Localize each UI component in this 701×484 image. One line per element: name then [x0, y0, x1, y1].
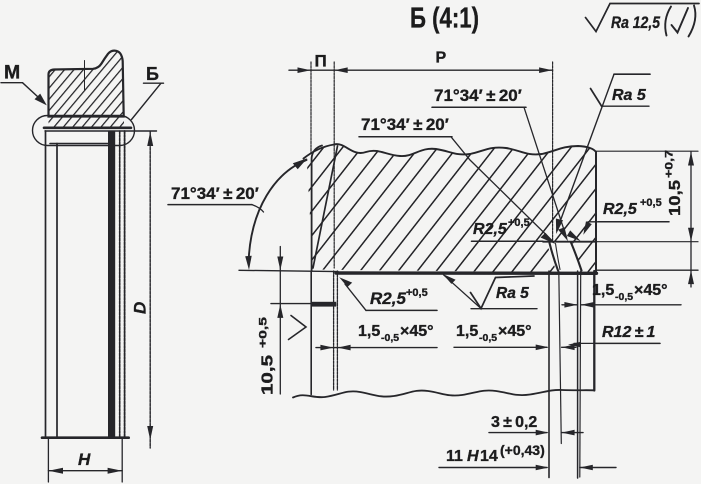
seal band top edge	[49, 116, 125, 118]
left rim black step bar	[312, 302, 337, 307]
svg-text:D: D	[131, 302, 150, 314]
left vertical edge of detail	[312, 146, 322, 272]
extension line П left	[310, 62, 312, 153]
svg-text:3 ± 0,2: 3 ± 0,2	[491, 414, 537, 431]
svg-text:×45°: ×45°	[498, 323, 532, 340]
right rim outer wall	[593, 271, 595, 391]
svg-text:+0,5: +0,5	[258, 317, 270, 348]
seal band hatch	[49, 117, 125, 127]
groove shoulder line	[543, 241, 597, 243]
svg-text:+0,5: +0,5	[508, 217, 530, 229]
extension line П right	[333, 62, 335, 268]
outer left wall	[45, 131, 47, 438]
left rim outer wall	[310, 271, 312, 395]
roughness Ra5 lower with leader	[444, 275, 482, 309]
svg-text:10,5: 10,5	[667, 180, 684, 216]
right edge of detail	[595, 152, 597, 274]
angle dimension arc	[249, 160, 307, 264]
seal band bottom thick edge	[44, 127, 131, 130]
leader of М with arrow	[23, 83, 45, 103]
wavy top break line	[304, 144, 597, 158]
roughness Ra5 upper-right	[557, 74, 614, 230]
svg-text:Б (4:1): Б (4:1)	[410, 3, 479, 35]
svg-text:-0,5: -0,5	[479, 332, 497, 344]
detail section hatched block	[307, 144, 597, 273]
seal body section (hatched)	[49, 51, 124, 117]
sloped groove wall (71°34')	[313, 146, 338, 268]
groove left wall	[550, 243, 559, 271]
right wall outer lines	[119, 131, 121, 438]
leader upper 71°	[524, 107, 567, 237]
detail boundary stadium Б	[33, 116, 135, 146]
inner left wall	[56, 144, 58, 438]
svg-text:11: 11	[446, 448, 466, 465]
leader of Б	[132, 83, 162, 119]
extension line Р right	[552, 62, 554, 240]
svg-text:-0,5: -0,5	[381, 332, 399, 344]
svg-text:Ra 5: Ra 5	[496, 285, 529, 302]
groove right wall (R12)	[571, 243, 582, 271]
left rim inner dotted pair	[333, 271, 335, 390]
bottom surface thick line	[336, 271, 597, 275]
leader left 71° to arc	[252, 205, 264, 212]
svg-text:Р: Р	[436, 50, 447, 67]
svg-text:R12 ± 1: R12 ± 1	[602, 324, 656, 341]
svg-text:R2,5: R2,5	[370, 289, 406, 308]
svg-text:1,5: 1,5	[456, 323, 478, 340]
svg-text:(+0,43): (+0,43)	[500, 442, 545, 458]
right rim groove wall C pair	[577, 271, 579, 478]
svg-text:R2,5: R2,5	[473, 221, 508, 238]
svg-text:-0,5: -0,5	[615, 291, 633, 303]
svg-text:H: H	[467, 448, 479, 465]
wavy bottom break line	[293, 390, 594, 398]
dimension D line	[149, 132, 151, 449]
svg-text:+0,5: +0,5	[406, 287, 428, 299]
svg-text:R2,5: R2,5	[603, 201, 638, 218]
svg-text:+0,5: +0,5	[640, 197, 662, 209]
svg-text:71°34′ ± 20′: 71°34′ ± 20′	[434, 86, 522, 105]
svg-text:+0,7: +0,7	[664, 150, 676, 178]
mold tick on seal	[84, 61, 86, 91]
svg-text:71°34′ ± 20′: 71°34′ ± 20′	[361, 115, 449, 134]
svg-text:М: М	[4, 62, 20, 84]
svg-text:П: П	[315, 52, 327, 71]
svg-text:14: 14	[480, 448, 498, 465]
svg-text:1,5: 1,5	[592, 282, 614, 299]
svg-text:1,5: 1,5	[358, 323, 380, 340]
dimension 10,5+0,5 left side	[271, 303, 311, 305]
dimension line П / Р	[289, 69, 553, 71]
general roughness symbol Ra 12,5 with (check)	[586, 4, 700, 32]
dimension H line with arrows	[48, 470, 122, 472]
surface check mark on left rim	[289, 316, 307, 340]
dimension 10,5+0,7 right side	[597, 150, 698, 152]
right rim slot wall B	[559, 271, 562, 444]
svg-text:Ra 5: Ra 5	[612, 87, 647, 104]
right rim slot wall A	[548, 271, 550, 478]
svg-text:Ra 12,5: Ra 12,5	[611, 13, 660, 32]
svg-text:×45°: ×45°	[400, 323, 434, 340]
inner ledge line	[50, 143, 108, 145]
groove void (white-out)	[547, 242, 583, 273]
leader middle 71°	[451, 137, 553, 241]
dimension H extension lines	[47, 438, 49, 482]
right wall solid black band	[108, 131, 115, 438]
svg-text:71°34′ ± 20′: 71°34′ ± 20′	[171, 184, 259, 203]
svg-text:Б: Б	[146, 64, 159, 84]
bottom edge	[42, 436, 129, 439]
svg-text:H: H	[78, 450, 91, 469]
ledge line left of corner	[239, 270, 338, 271]
flange top line / D extension	[45, 130, 157, 132]
svg-text:×45°: ×45°	[634, 282, 668, 299]
svg-text:10,5: 10,5	[260, 355, 277, 395]
